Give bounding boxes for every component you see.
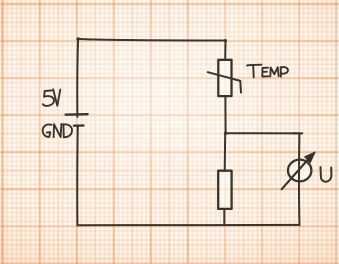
wire junction horizontal to voltmeter branch — [226, 132, 301, 134]
node right corner tick — [293, 132, 302, 134]
resistor R1 body — [218, 171, 231, 209]
node top-right corner blob — [224, 39, 227, 42]
wire thermistor top lead — [224, 41, 226, 61]
wire top horizontal — [78, 39, 226, 41]
voltmeter U1 circle — [288, 160, 311, 182]
wire thermistor bottom lead to junction — [224, 96, 226, 133]
thermistor R_T body — [218, 60, 231, 96]
voltmeter U1 arrow — [282, 157, 311, 190]
wire left vertical (bottom) — [76, 126, 79, 226]
voltmeter U1 arrowhead — [305, 152, 316, 163]
wire middle vertical to resistor — [224, 133, 227, 170]
node top-left corner blob — [76, 37, 79, 40]
label TEMP — [247, 65, 288, 78]
label U — [321, 167, 332, 182]
node junction dot — [224, 132, 228, 136]
battery B1 5V long plate — [66, 113, 88, 116]
wire bottom horizontal — [77, 224, 299, 226]
battery B1 short plate — [74, 124, 84, 126]
wire resistor bottom lead — [223, 209, 225, 225]
thermistor R_T diagonal stroke — [208, 72, 241, 92]
label 5V — [43, 89, 60, 106]
wire left vertical (top) — [76, 39, 79, 117]
wire right vertical — [298, 133, 300, 225]
label GND — [43, 124, 72, 137]
